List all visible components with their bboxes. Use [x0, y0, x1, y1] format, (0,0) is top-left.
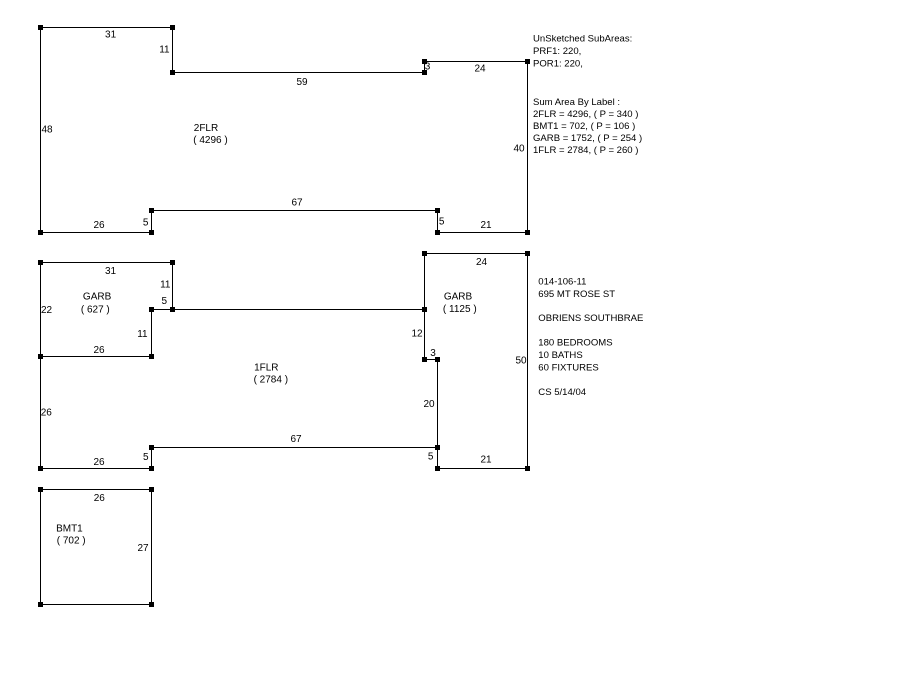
- svg-text:60 FIXTURES: 60 FIXTURES: [538, 363, 598, 374]
- svg-text:( 2784 ): ( 2784 ): [254, 375, 288, 386]
- svg-text:PRF1: 220,: PRF1: 220,: [533, 46, 581, 57]
- svg-text:1FLR = 2784, ( P = 260 ): 1FLR = 2784, ( P = 260 ): [533, 145, 638, 156]
- svg-text:50: 50: [515, 356, 527, 367]
- svg-text:BMT1: BMT1: [56, 523, 83, 534]
- svg-text:31: 31: [105, 266, 117, 277]
- svg-text:GARB: GARB: [83, 292, 112, 303]
- svg-text:26: 26: [94, 493, 106, 504]
- svg-text:11: 11: [159, 45, 170, 56]
- svg-text:GARB: GARB: [444, 292, 473, 303]
- svg-text:180 BEDROOMS: 180 BEDROOMS: [538, 338, 612, 349]
- svg-text:21: 21: [480, 220, 492, 231]
- svg-text:3: 3: [425, 62, 431, 73]
- svg-text:5: 5: [143, 452, 149, 463]
- svg-text:59: 59: [296, 77, 308, 88]
- svg-text:5: 5: [143, 218, 149, 229]
- svg-text:2FLR: 2FLR: [194, 123, 218, 134]
- svg-text:27: 27: [137, 543, 149, 554]
- svg-text:UnSketched SubAreas:: UnSketched SubAreas:: [533, 34, 632, 45]
- svg-text:31: 31: [105, 30, 117, 41]
- svg-text:11: 11: [160, 280, 171, 291]
- svg-text:( 627 ): ( 627 ): [81, 304, 110, 315]
- BMT1 vertex markers: [38, 487, 154, 607]
- middle shape vertex markers: [38, 251, 530, 471]
- BMT1 outline: [41, 490, 152, 605]
- svg-text:OBRIENS SOUTHBRAE: OBRIENS SOUTHBRAE: [538, 313, 643, 324]
- svg-text:26: 26: [93, 220, 105, 231]
- svg-text:21: 21: [480, 455, 492, 466]
- svg-text:2FLR = 4296, ( P = 340 ): 2FLR = 4296, ( P = 340 ): [533, 109, 638, 120]
- 2FLR polygon outline: [41, 28, 528, 233]
- svg-text:695 MT ROSE ST: 695 MT ROSE ST: [538, 289, 615, 300]
- svg-text:014-106-11: 014-106-11: [538, 277, 586, 288]
- svg-text:POR1: 220,: POR1: 220,: [533, 58, 583, 69]
- svg-text:26: 26: [93, 345, 105, 356]
- svg-text:10 BATHS: 10 BATHS: [538, 350, 582, 361]
- unsketched subareas text block: [533, 34, 632, 70]
- svg-text:22: 22: [41, 305, 53, 316]
- svg-text:67: 67: [290, 434, 302, 445]
- svg-text:( 702 ): ( 702 ): [57, 535, 86, 546]
- sum area by label text block: [533, 97, 642, 156]
- svg-text:( 1125 ): ( 1125 ): [443, 304, 477, 315]
- svg-text:5: 5: [439, 217, 445, 228]
- middle compound outline (GARB 627 / 1FLR / GARB 1125): [41, 254, 528, 469]
- parcel info text block: [538, 277, 643, 398]
- svg-text:67: 67: [291, 198, 303, 209]
- svg-text:( 4296 ): ( 4296 ): [193, 135, 227, 146]
- svg-text:26: 26: [41, 408, 53, 419]
- svg-text:48: 48: [41, 124, 53, 135]
- svg-text:3: 3: [430, 348, 436, 359]
- svg-text:CS 5/14/04: CS 5/14/04: [538, 387, 586, 398]
- svg-text:12: 12: [411, 329, 423, 340]
- svg-text:26: 26: [93, 457, 105, 468]
- svg-text:BMT1 = 702, ( P = 106 ): BMT1 = 702, ( P = 106 ): [533, 121, 635, 132]
- svg-text:Sum Area By Label :: Sum Area By Label :: [533, 97, 620, 108]
- svg-text:GARB = 1752, ( P = 254 ): GARB = 1752, ( P = 254 ): [533, 133, 642, 144]
- svg-text:40: 40: [513, 144, 525, 155]
- svg-text:24: 24: [474, 64, 486, 75]
- 2FLR vertex markers: [38, 25, 530, 235]
- svg-text:24: 24: [476, 257, 488, 268]
- svg-text:20: 20: [423, 399, 435, 410]
- svg-text:5: 5: [428, 452, 434, 463]
- svg-text:11: 11: [137, 329, 148, 340]
- svg-text:1FLR: 1FLR: [254, 363, 278, 374]
- svg-text:5: 5: [162, 296, 168, 307]
